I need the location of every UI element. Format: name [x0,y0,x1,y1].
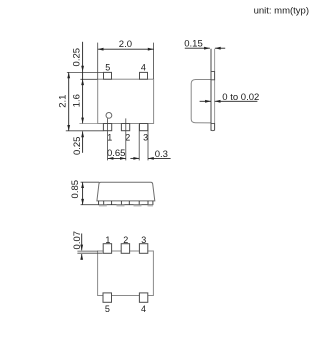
pin 2 (top view) [121,124,129,131]
pin 5 (top view) [104,72,112,79]
svg-text:2: 2 [123,235,128,245]
svg-text:1.6: 1.6 [72,94,83,107]
pin 1 (bottom view) [103,244,111,254]
pin 1 (top view) [103,124,111,131]
dim 2.0 line with arrows [98,48,154,50]
side body outline [191,80,211,123]
svg-text:0.25: 0.25 [72,137,83,156]
svg-text:4: 4 [141,63,146,73]
svg-text:2.0: 2.0 [119,39,132,50]
dim 2.1 line with arrows [68,72,70,130]
pin 3 (top view) [140,124,148,131]
bottom view body outline [98,251,154,296]
body outline (top view) [98,79,154,123]
svg-text:0.65: 0.65 [107,148,126,159]
front lead ticks [103,201,105,205]
svg-text:0.3: 0.3 [155,149,168,160]
lead top cap (pin 4 tip) [211,72,215,80]
svg-text:1: 1 [105,235,110,245]
ext line pin-top level [67,71,104,73]
dim 0.15 leader right [215,47,225,49]
svg-text:2.1: 2.1 [58,95,69,108]
svg-text:5: 5 [105,304,110,314]
lead inner line (dark) [210,49,212,131]
svg-text:4: 4 [141,304,146,314]
pin 2 (bottom view) [121,244,129,254]
svg-text:5: 5 [105,63,110,73]
ext line body-bottom level [79,123,97,125]
pin-1 index circle [106,113,112,119]
front lead band [99,201,153,205]
dim 0.07 leader bottom [81,254,83,260]
pin 4 (bottom view) [139,293,147,302]
svg-text:unit: mm(typ): unit: mm(typ) [254,5,309,16]
ext line pin-bottom level [66,130,104,132]
dim 1.6 and 0.25 leader line [82,42,84,124]
dim 0.15 leader left [185,47,210,49]
svg-text:0.85: 0.85 [70,180,81,199]
dim 0.65 extension lines [107,118,109,160]
svg-text:3: 3 [143,132,148,142]
dim 0 to 0.02 leader right [215,100,258,102]
dim 0.85 line with arrows [82,182,84,205]
dim 0.65 line with arrows [108,157,126,159]
pin 3 (bottom view) [139,244,147,254]
dim 2.0 extension lines [97,43,99,79]
front body outline [97,182,155,201]
pin 5 (bottom view) [103,293,112,302]
dim 0 to 0.02 leader left [200,100,211,102]
dim 0.85 extension lines [81,181,100,183]
svg-text:1: 1 [107,132,112,142]
svg-text:3: 3 [141,235,146,245]
ext line body-top level [80,78,97,80]
lead tip plane line (gray) [214,49,216,131]
svg-text:0.25: 0.25 [72,48,83,66]
dim 0.07 leader top [81,234,83,251]
svg-text:0.07: 0.07 [72,231,83,250]
pin 4 (top view) [140,72,148,79]
lead bottom cap (pin 3 tip) [211,123,215,130]
front hidden lead feet (gray) [99,205,107,207]
dim 0.3 arrows outside [130,157,139,159]
dim 0.07 extension lines [77,250,98,252]
dim 0.3 extension lines [138,124,140,160]
dim 0.25 bottom leader [82,131,84,152]
